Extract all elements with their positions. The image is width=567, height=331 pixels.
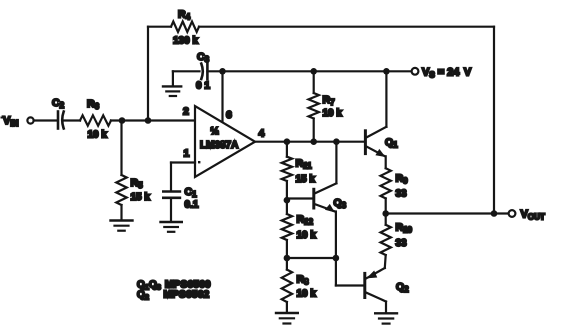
svg-text:0.1: 0.1 <box>185 200 199 211</box>
capacitor C1 <box>163 186 199 211</box>
svg-text:VIN: VIN <box>3 115 19 128</box>
wire R4 to right corner <box>199 26 494 28</box>
node C3 / pin 6 <box>219 68 226 75</box>
wire Q1 collector up <box>385 71 387 127</box>
svg-text:Q3: Q3 <box>334 197 347 210</box>
svg-text:R12: R12 <box>297 214 314 227</box>
svg-text:LM387A: LM387A <box>200 140 238 151</box>
terminal VS <box>412 67 472 80</box>
svg-text:R11: R11 <box>296 158 313 171</box>
svg-text:R10: R10 <box>396 222 413 235</box>
ground at C3 <box>163 71 181 96</box>
svg-text:4: 4 <box>259 128 265 140</box>
wire C3 to VS terminal <box>207 70 411 72</box>
node R7 bottom <box>310 138 317 145</box>
svg-text:1: 1 <box>184 148 190 160</box>
node VOUT junction at R9/R10 <box>382 210 389 217</box>
node at R5 branch <box>119 117 126 124</box>
label transistor types <box>137 280 211 302</box>
svg-text:VS=24V: VS=24V <box>422 67 472 80</box>
transistor Q1 <box>365 127 398 157</box>
svg-text:33: 33 <box>396 189 408 200</box>
resistor R5 <box>116 175 150 205</box>
node at feedback branch <box>145 117 152 124</box>
svg-text:2: 2 <box>183 106 189 118</box>
svg-text:½: ½ <box>211 126 219 137</box>
ground under Q2 <box>375 313 397 323</box>
wire C2 to R6 <box>64 119 80 121</box>
node R11 top <box>284 138 291 145</box>
ground under C1 <box>161 222 182 232</box>
node feedback at VOUT <box>491 210 498 217</box>
svg-text:C1: C1 <box>185 186 198 199</box>
wire right vertical down to VOUT node <box>493 27 495 214</box>
svg-text:R6: R6 <box>87 98 100 111</box>
svg-text:15 k: 15 k <box>296 174 316 185</box>
svg-text:6: 6 <box>226 109 232 121</box>
wire R5 branch down <box>120 121 122 176</box>
node R12 bottom <box>284 255 291 262</box>
transistor Q2 <box>365 268 409 313</box>
svg-text:R5: R5 <box>131 177 144 190</box>
wire C1 to ground <box>170 198 172 222</box>
wire ground to C3 <box>173 70 200 72</box>
wire R6 to op-amp pin 2 <box>111 119 195 121</box>
svg-text:10 k: 10 k <box>297 289 317 300</box>
svg-text:C2: C2 <box>52 97 65 110</box>
wire VOUT horizontal <box>386 212 509 214</box>
wire pin 1 <box>171 163 195 191</box>
wire VIN to C2 <box>34 119 56 121</box>
resistor R11 <box>282 142 316 201</box>
capacitor C2 <box>52 97 65 129</box>
node Q3 base <box>284 197 291 204</box>
svg-text:R8: R8 <box>297 274 310 287</box>
ground under R5 <box>111 221 133 231</box>
resistor R9 <box>381 168 409 213</box>
svg-text:15 k: 15 k <box>131 192 151 203</box>
resistor R10 <box>381 214 413 269</box>
ground under R8 <box>276 313 298 324</box>
wire pin 6 vertical <box>221 71 223 122</box>
svg-text:10 k: 10 k <box>88 130 108 141</box>
svg-text:Q2: Q2 <box>396 281 409 294</box>
node Q3 collector top <box>333 138 340 145</box>
svg-text:0 1: 0 1 <box>196 81 210 92</box>
node Q3 emitter bottom <box>333 255 340 262</box>
resistor R4 <box>171 9 199 47</box>
transistor Q3 <box>287 183 347 212</box>
capacitor C3 <box>196 51 210 92</box>
wire Q3 collector up <box>335 142 337 184</box>
wire op-amp output pin 4 <box>255 141 364 143</box>
resistor R6 <box>80 98 111 141</box>
terminal VIN <box>1 115 34 128</box>
wire feedback vertical up <box>147 27 149 121</box>
node R7 top <box>310 68 317 75</box>
svg-text:130 k: 130 k <box>173 36 198 47</box>
svg-text:10 k: 10 k <box>297 230 317 241</box>
wire to Q2 base <box>336 258 364 286</box>
svg-text:VOUT: VOUT <box>521 209 545 222</box>
wire top left to R4 <box>148 26 171 28</box>
svg-text:R4: R4 <box>178 9 191 22</box>
svg-text:R7: R7 <box>323 94 336 107</box>
wire Q1 emitter down <box>385 156 387 168</box>
resistor R7 <box>309 71 343 141</box>
resistor R12 <box>282 200 317 258</box>
svg-text:10 k: 10 k <box>323 108 343 119</box>
svg-text:C3: C3 <box>197 51 210 64</box>
svg-text:33: 33 <box>396 238 408 249</box>
svg-text:Q1: Q1 <box>385 137 398 150</box>
wire Q3 emitter down <box>335 212 337 259</box>
wire bottom R12 to Q3 emitter <box>287 257 336 259</box>
node Q1 collector top <box>383 68 390 75</box>
terminal VOUT <box>509 209 545 222</box>
resistor R8 <box>282 258 317 313</box>
wire R5 to ground <box>120 205 122 220</box>
svg-text:R9: R9 <box>396 173 409 186</box>
op-amp U1 LM387A <box>183 106 265 178</box>
